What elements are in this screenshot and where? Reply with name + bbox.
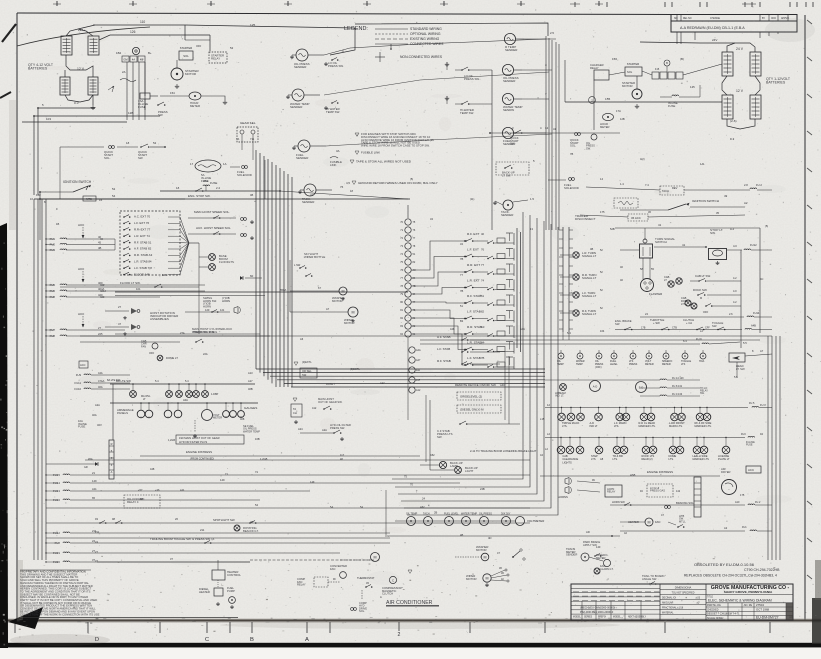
svg-text:TAPE & STOW ALL WIRES NOT USED: TAPE & STOW ALL WIRES NOT USED bbox=[356, 160, 412, 164]
svg-text:51: 51 bbox=[481, 294, 485, 298]
svg-text:B+: B+ bbox=[148, 51, 152, 55]
svg-text:±.03: ±.03 bbox=[695, 598, 700, 600]
svg-text:4B: 4B bbox=[250, 193, 253, 197]
svg-text:12: 12 bbox=[545, 126, 549, 130]
svg-text:SENDER: SENDER bbox=[501, 213, 514, 217]
svg-text:APPLY SW.: APPLY SW. bbox=[583, 543, 597, 547]
svg-text:76: 76 bbox=[481, 248, 485, 252]
svg-text:E-D: E-D bbox=[639, 386, 644, 390]
svg-text:NON-CONNECTED WIRES: NON-CONNECTED WIRES bbox=[400, 55, 443, 59]
svg-text:CKD: CKD bbox=[771, 18, 776, 20]
svg-text:M: M bbox=[373, 555, 376, 559]
svg-text:MARKER LTS.: MARKER LTS. bbox=[695, 424, 712, 428]
svg-text:2B: 2B bbox=[434, 511, 437, 515]
svg-text:ENG. STOP SW.: ENG. STOP SW. bbox=[188, 194, 211, 198]
svg-text:54: 54 bbox=[112, 194, 116, 198]
svg-text:175: 175 bbox=[600, 210, 605, 214]
svg-text:REAR (2): REAR (2) bbox=[642, 457, 653, 461]
svg-text:FRACTIONAL ±1/16: FRACTIONAL ±1/16 bbox=[662, 607, 684, 610]
svg-text:49: 49 bbox=[724, 194, 728, 198]
svg-text:7B: 7B bbox=[570, 152, 573, 156]
svg-text:40: 40 bbox=[481, 232, 485, 236]
svg-text:BY: BY bbox=[762, 18, 766, 20]
svg-text:FU10: FU10 bbox=[74, 387, 81, 391]
svg-text:MOTOR: MOTOR bbox=[185, 72, 197, 76]
svg-text:4B: 4B bbox=[460, 533, 463, 537]
svg-text:77: 77 bbox=[481, 263, 485, 267]
svg-text:M: M bbox=[700, 297, 702, 300]
svg-text:4.0: 4.0 bbox=[733, 244, 737, 248]
svg-text:7B: 7B bbox=[460, 289, 463, 293]
svg-text:7B: 7B bbox=[481, 356, 485, 360]
svg-text:METER: METER bbox=[213, 416, 222, 420]
svg-text:LTS.: LTS. bbox=[614, 424, 620, 428]
svg-text:HOA: HOA bbox=[699, 360, 705, 363]
svg-text:F-B: F-B bbox=[655, 67, 659, 71]
svg-text:FU.5: FU.5 bbox=[749, 402, 755, 405]
svg-text:AUX. HOIST SPEED SOL: AUX. HOIST SPEED SOL bbox=[196, 226, 231, 230]
svg-text:A4B: A4B bbox=[751, 324, 756, 328]
svg-text:117: 117 bbox=[340, 453, 345, 457]
svg-text:FU9: FU9 bbox=[76, 373, 82, 377]
svg-text:40A: 40A bbox=[92, 413, 97, 417]
svg-text:45A: 45A bbox=[88, 457, 93, 461]
svg-text:NO: NO bbox=[674, 18, 678, 20]
svg-text:REL NO: REL NO bbox=[683, 18, 692, 20]
svg-text:125: 125 bbox=[690, 85, 695, 89]
svg-text:SOL: SOL bbox=[627, 70, 633, 74]
svg-text:PANELS: PANELS bbox=[117, 411, 128, 415]
svg-text:A.C. EXT 70: A.C. EXT 70 bbox=[134, 215, 150, 219]
svg-text:NEXT ASSEMBLY: NEXT ASSEMBLY bbox=[628, 616, 647, 619]
svg-text:18: 18 bbox=[176, 186, 180, 190]
svg-text:LIGHT: LIGHT bbox=[465, 469, 474, 473]
svg-text:C: C bbox=[205, 637, 209, 643]
svg-text:17B: 17B bbox=[641, 327, 646, 330]
svg-text:LEGEND:: LEGEND: bbox=[344, 26, 368, 32]
svg-text:GAUGES: GAUGES bbox=[244, 406, 257, 410]
svg-text:SW.: SW. bbox=[586, 146, 591, 150]
svg-text:76: 76 bbox=[340, 185, 344, 189]
svg-text:L.F. EXT 76: L.F. EXT 76 bbox=[134, 221, 150, 225]
svg-text:TACH: TACH bbox=[423, 513, 430, 516]
svg-text:A8: A8 bbox=[600, 457, 604, 461]
svg-text:A3: A3 bbox=[481, 325, 485, 329]
svg-text:A: A bbox=[380, 595, 382, 599]
svg-text:A12: A12 bbox=[416, 389, 421, 392]
svg-text:METER: METER bbox=[645, 363, 654, 366]
svg-text:VOLTMETER: VOLTMETER bbox=[527, 519, 544, 523]
svg-text:RELAY 4: RELAY 4 bbox=[127, 500, 139, 504]
svg-text:711: 711 bbox=[250, 137, 255, 141]
svg-text:4.2: 4.2 bbox=[733, 276, 737, 280]
svg-text:A17: A17 bbox=[248, 379, 253, 383]
svg-text:1B: 1B bbox=[501, 573, 504, 575]
svg-text:1B: 1B bbox=[56, 222, 59, 226]
svg-text:GR: GR bbox=[84, 466, 88, 469]
svg-text:FU.14 129: FU.14 129 bbox=[672, 377, 684, 380]
svg-text:PRESS SW & SOL: PRESS SW & SOL bbox=[193, 330, 218, 334]
svg-text:MOTOR: MOTOR bbox=[332, 299, 343, 303]
svg-text:A2: A2 bbox=[724, 526, 728, 530]
svg-text:R: R bbox=[111, 442, 113, 446]
svg-text:M: M bbox=[351, 310, 354, 314]
svg-text:7.4: 7.4 bbox=[645, 183, 649, 187]
svg-text:A.F. STAB 82: A.F. STAB 82 bbox=[134, 247, 152, 251]
svg-text:ACC: ACC bbox=[748, 468, 754, 472]
svg-text:MAIN HOIST SPEED SOL.: MAIN HOIST SPEED SOL. bbox=[194, 210, 230, 214]
svg-text:TEMP SW.: TEMP SW. bbox=[326, 110, 340, 114]
svg-text:ANGULAR: ANGULAR bbox=[662, 602, 674, 605]
svg-text:BRAKING SOL.: BRAKING SOL. bbox=[676, 501, 695, 505]
svg-text:DOME LT: DOME LT bbox=[166, 356, 178, 360]
svg-text:SENDER: SENDER bbox=[302, 200, 315, 204]
svg-text:5.5: 5.5 bbox=[743, 341, 747, 345]
svg-text:2A: 2A bbox=[122, 70, 126, 74]
svg-text:3A: 3A bbox=[336, 149, 340, 153]
svg-text:16B: 16B bbox=[255, 437, 260, 441]
svg-text:A24: A24 bbox=[298, 427, 303, 431]
svg-text:SW.: SW. bbox=[138, 156, 143, 160]
svg-text:ALARM LT.: ALARM LT. bbox=[600, 567, 614, 571]
svg-text:41: 41 bbox=[553, 127, 557, 131]
svg-text:L.R. EXT: L.R. EXT bbox=[467, 279, 480, 283]
svg-text:FU.8 131: FU.8 131 bbox=[672, 385, 683, 388]
svg-text:ANGLE SW.: ANGLE SW. bbox=[642, 577, 657, 581]
svg-text:CHANGE: CHANGE bbox=[710, 17, 720, 20]
svg-text:44A: 44A bbox=[98, 371, 103, 375]
svg-text:SENDER: SENDER bbox=[566, 553, 577, 557]
svg-text:21: 21 bbox=[92, 471, 96, 475]
svg-text:446: 446 bbox=[450, 327, 455, 331]
svg-text:ELEC. SCHEMATIC & WIRING DIAGR: ELEC. SCHEMATIC & WIRING DIAGRAM bbox=[708, 599, 772, 603]
svg-text:ACC: ACC bbox=[78, 223, 85, 227]
svg-text:SW.: SW. bbox=[710, 231, 716, 235]
svg-text:FUSE: FUSE bbox=[746, 444, 753, 447]
svg-text:5.4: 5.4 bbox=[185, 379, 189, 383]
svg-text:PUMP: PUMP bbox=[227, 589, 235, 593]
svg-text:LEVEL: LEVEL bbox=[610, 363, 618, 366]
svg-text:CAB LT SW.: CAB LT SW. bbox=[695, 274, 711, 278]
svg-text:REV: REV bbox=[672, 186, 678, 190]
svg-text:35: 35 bbox=[716, 211, 720, 215]
svg-text:FU12: FU12 bbox=[750, 243, 757, 247]
svg-text:6.4: 6.4 bbox=[683, 339, 687, 343]
svg-text:32V: 32V bbox=[97, 423, 102, 427]
svg-text:5.5: 5.5 bbox=[734, 375, 738, 379]
svg-text:SWITCH: SWITCH bbox=[655, 240, 667, 244]
svg-text:156: 156 bbox=[612, 57, 617, 61]
svg-text:12: 12 bbox=[547, 403, 551, 407]
svg-text:MOTOR: MOTOR bbox=[466, 577, 477, 581]
svg-text:BEACON LT.: BEACON LT. bbox=[243, 529, 259, 533]
svg-text:OBSOLETED BY EU-DM-0.10.56: OBSOLETED BY EU-DM-0.10.56 bbox=[694, 562, 755, 567]
svg-text:D-9: D-9 bbox=[730, 137, 735, 141]
svg-text:SPOTLIGHT SW.: SPOTLIGHT SW. bbox=[213, 518, 235, 522]
svg-text:12 V: 12 V bbox=[736, 89, 744, 93]
svg-text:SIGNAL LT: SIGNAL LT bbox=[582, 276, 597, 280]
svg-text:A7: A7 bbox=[760, 349, 764, 353]
svg-text:1B: 1B bbox=[499, 568, 502, 570]
svg-text:FUSE: FUSE bbox=[138, 105, 146, 109]
svg-text:R.R. EXT: R.R. EXT bbox=[467, 263, 480, 267]
svg-text:MARKER LTS: MARKER LTS bbox=[693, 457, 710, 461]
svg-text:24B: 24B bbox=[480, 487, 485, 491]
svg-text:41: 41 bbox=[682, 243, 686, 247]
svg-text:52: 52 bbox=[230, 46, 234, 50]
svg-text:RELAY: RELAY bbox=[607, 490, 616, 494]
svg-text:HYD DR FILTER PLCS: HYD DR FILTER PLCS bbox=[179, 440, 207, 444]
svg-text:R.R. STAB: R.R. STAB bbox=[467, 325, 482, 329]
svg-text:FUSE: FUSE bbox=[210, 181, 217, 185]
svg-text:R.F. STAB: R.F. STAB bbox=[467, 294, 481, 298]
svg-text:A52: A52 bbox=[430, 453, 435, 457]
svg-text:M: M bbox=[341, 289, 344, 293]
svg-text:OIL PRESS: OIL PRESS bbox=[479, 513, 492, 516]
svg-text:5.4: 5.4 bbox=[155, 379, 159, 383]
svg-text:211: 211 bbox=[200, 528, 205, 532]
svg-text:SERIES: SERIES bbox=[584, 617, 593, 619]
svg-text:102: 102 bbox=[36, 193, 41, 197]
svg-text:4B: 4B bbox=[590, 247, 593, 251]
svg-text:175: 175 bbox=[740, 493, 745, 497]
svg-text:ACC: ACC bbox=[78, 312, 85, 316]
svg-text:7B: 7B bbox=[413, 285, 416, 288]
svg-text:B: B bbox=[666, 61, 668, 65]
svg-text:SOLENOID: SOLENOID bbox=[237, 173, 252, 177]
svg-text:SIGNAL LT: SIGNAL LT bbox=[582, 312, 597, 316]
svg-text:60: 60 bbox=[250, 274, 254, 278]
svg-text:(2-6): (2-6) bbox=[730, 119, 737, 123]
svg-text:OPTIONAL WIRING: OPTIONAL WIRING bbox=[410, 32, 441, 36]
svg-text:METER: METER bbox=[662, 363, 671, 366]
svg-text:4A: 4A bbox=[132, 58, 135, 62]
svg-text:22A: 22A bbox=[203, 352, 208, 356]
svg-text:A: A bbox=[305, 637, 309, 643]
svg-text:A2: A2 bbox=[744, 201, 748, 205]
svg-text:STANDARD WIRING: STANDARD WIRING bbox=[410, 27, 442, 31]
svg-text:TEMP SW.: TEMP SW. bbox=[460, 111, 474, 115]
svg-text:A11: A11 bbox=[92, 487, 97, 491]
svg-text:MODEL: MODEL bbox=[573, 617, 582, 619]
svg-text:SW.: SW. bbox=[615, 322, 620, 326]
svg-text:IGNITION SWITCH: IGNITION SWITCH bbox=[692, 199, 719, 203]
svg-text:AIR CONDITIONER: AIR CONDITIONER bbox=[386, 600, 433, 606]
svg-text:STARTER: STARTER bbox=[180, 46, 192, 50]
svg-text:B2: B2 bbox=[460, 319, 464, 323]
svg-text:L15: L15 bbox=[540, 417, 545, 421]
svg-text:CFF: CFF bbox=[705, 327, 710, 330]
svg-text:CT90 CH-294-7022HB: CT90 CH-294-7022HB bbox=[744, 568, 780, 572]
svg-text:SW.: SW. bbox=[437, 435, 442, 439]
svg-text:TA: TA bbox=[293, 407, 296, 411]
svg-text:FLOOD LT SW.: FLOOD LT SW. bbox=[120, 281, 141, 285]
svg-text:120: 120 bbox=[205, 308, 210, 312]
svg-text:L.F. EXT: L.F. EXT bbox=[467, 248, 479, 252]
svg-text:2-11 TO TRAILING BOOM LOWERING: 2-11 TO TRAILING BOOM LOWERING BRAKE LIG… bbox=[470, 449, 537, 453]
svg-text:LTS: LTS bbox=[591, 457, 596, 461]
svg-text:DIMENSIONA: DIMENSIONA bbox=[675, 586, 692, 590]
svg-text:101: 101 bbox=[136, 287, 141, 291]
svg-text:400: 400 bbox=[100, 283, 105, 287]
svg-text:650A: 650A bbox=[280, 288, 287, 292]
svg-text:LT: LT bbox=[664, 278, 667, 282]
svg-text:HORNS: HORNS bbox=[558, 495, 568, 499]
svg-text:7A: 7A bbox=[236, 137, 239, 141]
svg-text:4D: 4D bbox=[488, 536, 492, 540]
svg-text:1-DBP: 1-DBP bbox=[211, 393, 219, 396]
svg-text:4.0: 4.0 bbox=[733, 289, 737, 293]
svg-text:A47: A47 bbox=[416, 359, 421, 362]
svg-text:MATERIAL: MATERIAL bbox=[662, 612, 674, 615]
svg-text:PS(L)000-PS(L)000-L0000-0: PS(L)000-PS(L)000-L0000-0 bbox=[580, 610, 614, 614]
svg-text:30X 30Y: 30X 30Y bbox=[501, 513, 511, 516]
svg-text:RELAY: RELAY bbox=[590, 66, 599, 70]
svg-text:IND. LT.: IND. LT. bbox=[555, 394, 564, 398]
svg-text:SW.: SW. bbox=[510, 142, 515, 146]
svg-text:110: 110 bbox=[140, 20, 145, 24]
svg-text:404A: 404A bbox=[100, 289, 106, 293]
svg-text:412: 412 bbox=[312, 406, 317, 410]
svg-text:12B: 12B bbox=[128, 111, 133, 115]
svg-text:52B: 52B bbox=[610, 227, 615, 231]
svg-text:4,5: 4,5 bbox=[346, 181, 350, 185]
svg-text:65: 65 bbox=[92, 496, 96, 500]
svg-text:225: 225 bbox=[98, 332, 103, 336]
svg-text:R.F. STAB: R.F. STAB bbox=[437, 359, 451, 363]
svg-text:A-D: A-D bbox=[593, 385, 598, 389]
svg-text:TEMP: TEMP bbox=[576, 363, 583, 366]
svg-text:LTS.: LTS. bbox=[613, 457, 619, 461]
svg-text:OFF: OFF bbox=[149, 351, 155, 355]
svg-text:+36: +36 bbox=[155, 488, 160, 492]
svg-text:103: 103 bbox=[46, 117, 51, 121]
svg-text:AD: AD bbox=[586, 530, 590, 534]
svg-text:WIPER BOTTLE: WIPER BOTTLE bbox=[304, 255, 325, 259]
svg-text:CHECKED: CHECKED bbox=[707, 609, 719, 611]
svg-text:L.F. STAB: L.F. STAB bbox=[437, 347, 450, 351]
svg-text:PRESS GAS: PRESS GAS bbox=[650, 489, 665, 493]
svg-text:4C: 4C bbox=[760, 277, 763, 281]
svg-text:(3)EXTL: (3)EXTL bbox=[302, 360, 312, 364]
svg-text:4B: 4B bbox=[98, 246, 102, 250]
svg-text:17: 17 bbox=[190, 162, 194, 166]
svg-text:HSB: HSB bbox=[630, 473, 636, 477]
svg-text:M: M bbox=[483, 555, 486, 559]
svg-text:SW.: SW. bbox=[712, 324, 717, 328]
svg-text:45: 45 bbox=[98, 241, 102, 245]
svg-text:5A: 5A bbox=[330, 505, 333, 509]
svg-text:142: 142 bbox=[676, 490, 681, 493]
svg-text:PLATE LT: PLATE LT bbox=[718, 457, 730, 461]
svg-text:A0A: A0A bbox=[183, 398, 188, 402]
svg-text:±1°: ±1° bbox=[696, 603, 700, 605]
svg-text:OFF: OFF bbox=[196, 44, 202, 48]
svg-text:PRESS SW.: PRESS SW. bbox=[464, 77, 480, 81]
svg-text:24V: 24V bbox=[712, 38, 717, 42]
svg-text:MODEL: MODEL bbox=[613, 617, 622, 619]
svg-text:LTS: LTS bbox=[681, 363, 686, 366]
svg-text:SW.: SW. bbox=[700, 392, 705, 395]
svg-text:A11: A11 bbox=[180, 488, 185, 492]
svg-text:A: A bbox=[111, 470, 113, 474]
svg-text:LTS.: LTS. bbox=[669, 457, 675, 461]
svg-text:SENDER: SENDER bbox=[290, 105, 303, 109]
svg-text:47: 47 bbox=[118, 322, 122, 326]
svg-text:A17: A17 bbox=[380, 381, 385, 385]
svg-text:2.4: 2.4 bbox=[216, 186, 220, 190]
svg-text:L.F. STAB: L.F. STAB bbox=[467, 310, 481, 314]
svg-text:CTB: CTB bbox=[672, 327, 677, 330]
svg-text:L.F. STAB 7(8: L.F. STAB 7(8 bbox=[134, 266, 152, 270]
svg-text:SENDER: SENDER bbox=[503, 79, 516, 83]
svg-text:FU1: FU1 bbox=[742, 526, 747, 529]
svg-text:12B: 12B bbox=[620, 117, 625, 121]
svg-text:TOL NOT SPECIFIED: TOL NOT SPECIFIED bbox=[672, 593, 695, 595]
svg-text:A2A: A2A bbox=[95, 403, 100, 407]
svg-text:BA LTE SW: BA LTE SW bbox=[116, 379, 131, 383]
svg-text:GEAR SEL: GEAR SEL bbox=[240, 121, 256, 125]
svg-text:2.6: 2.6 bbox=[729, 312, 733, 316]
svg-text:HORN SW.: HORN SW. bbox=[612, 500, 625, 504]
svg-text:SIGNAL LT: SIGNAL LT bbox=[582, 294, 597, 298]
svg-text:1A: 1A bbox=[223, 162, 227, 166]
svg-text:COMPLETION OF THE WORK IN CONN: COMPLETION OF THE WORK IN CONNECTION WIT… bbox=[20, 612, 100, 616]
svg-text:24 V: 24 V bbox=[736, 47, 744, 51]
svg-text:OCT 1968: OCT 1968 bbox=[756, 607, 770, 611]
svg-text:(FROM CONTINUED): (FROM CONTINUED) bbox=[190, 458, 214, 461]
svg-text:SENDW: SENDW bbox=[503, 108, 514, 112]
svg-text:121: 121 bbox=[220, 308, 225, 312]
svg-text:SW.: SW. bbox=[302, 373, 307, 377]
svg-text:FU3: FU3 bbox=[741, 433, 746, 436]
svg-text:16: 16 bbox=[99, 198, 103, 202]
svg-text:L.F. STAB: L.F. STAB bbox=[467, 356, 481, 360]
svg-text:52: 52 bbox=[153, 141, 157, 145]
svg-text:82: 82 bbox=[481, 310, 485, 314]
svg-text:TEMP: TEMP bbox=[557, 363, 564, 366]
svg-text:ENGINE DISTRESS: ENGINE DISTRESS bbox=[186, 450, 212, 454]
svg-text:2.8: 2.8 bbox=[744, 183, 748, 187]
svg-text:+57: +57 bbox=[138, 488, 143, 492]
svg-text:(5): (5) bbox=[765, 224, 768, 228]
svg-text:OIL TEMP: OIL TEMP bbox=[406, 513, 418, 516]
svg-text:LT SW.: LT SW. bbox=[502, 173, 511, 177]
svg-text:DESOET ? CX618-EM T-4-71: DESOET ? CX618-EM T-4-71 bbox=[707, 613, 740, 616]
svg-text:ACC: ACC bbox=[80, 363, 86, 367]
svg-text:54: 54 bbox=[255, 503, 259, 507]
svg-text:L.R. STAB 84: L.R. STAB 84 bbox=[134, 260, 152, 264]
svg-text:L2: L2 bbox=[547, 432, 551, 436]
svg-text:1.5: 1.5 bbox=[530, 197, 534, 201]
svg-text:SENDER: SENDER bbox=[296, 156, 309, 160]
svg-text:STARTER: STARTER bbox=[627, 62, 639, 66]
svg-text:1.4: 1.4 bbox=[620, 182, 624, 186]
svg-text:30A: 30A bbox=[203, 179, 208, 183]
svg-text:1,2GB: 1,2GB bbox=[260, 457, 268, 461]
svg-text:WATER TEMP: WATER TEMP bbox=[461, 513, 477, 516]
svg-text:MOTOR: MOTOR bbox=[622, 84, 633, 88]
svg-text:FU14: FU14 bbox=[753, 311, 760, 315]
svg-text:MOTOR: MOTOR bbox=[476, 548, 487, 552]
svg-text:2: 2 bbox=[398, 632, 401, 638]
svg-text:SCALE NONE: SCALE NONE bbox=[707, 617, 723, 620]
svg-text:149: 149 bbox=[92, 479, 97, 483]
svg-text:GROUND RETURN WIRES USED ON D3: GROUND RETURN WIRES USED ON D3.8D, B2L O… bbox=[358, 181, 438, 185]
svg-text:BATTERIES: BATTERIES bbox=[766, 80, 786, 84]
svg-text:SENDER: SENDER bbox=[294, 65, 307, 69]
svg-text:145: 145 bbox=[162, 273, 167, 277]
